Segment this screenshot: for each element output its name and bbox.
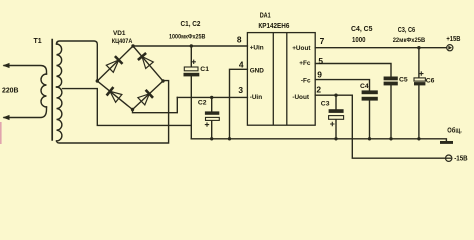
svg-text:С6: С6 [426,78,435,85]
svg-text:+Fc: +Fc [299,60,311,67]
svg-text:1000мкФх25В: 1000мкФх25В [169,33,206,40]
svg-text:Т1: Т1 [34,38,42,45]
svg-text:8: 8 [237,34,242,44]
svg-text:+Uin: +Uin [250,44,264,51]
svg-text:-Uout: -Uout [292,94,310,101]
svg-text:GND: GND [250,68,265,75]
svg-text:С1, С2: С1, С2 [181,19,201,28]
svg-text:1000: 1000 [352,37,366,44]
svg-text:+Uout: +Uout [292,45,311,52]
svg-text:9: 9 [317,70,322,80]
svg-text:VD1: VD1 [113,30,126,37]
svg-text:2: 2 [316,85,321,95]
svg-text:С3: С3 [321,101,330,108]
svg-text:С5: С5 [399,76,408,83]
svg-text:-Uin: -Uin [250,94,263,101]
svg-text:С2: С2 [198,100,207,107]
svg-text:4: 4 [239,60,244,70]
svg-text:С4: С4 [360,83,369,90]
svg-text:5: 5 [318,56,323,66]
svg-text:7: 7 [320,36,325,46]
svg-text:22мкФх25В: 22мкФх25В [393,37,426,44]
svg-text:DA1: DA1 [260,10,271,19]
svg-text:Общ.: Общ. [447,126,462,134]
svg-text:С3, С6: С3, С6 [398,25,416,34]
svg-text:220В: 220В [2,87,19,94]
svg-text:КЦ407А: КЦ407А [112,38,133,45]
svg-text:3: 3 [238,85,243,95]
svg-text:+15В: +15В [446,36,460,43]
svg-text:-Fc: -Fc [301,78,311,85]
svg-text:С4, С5: С4, С5 [351,24,373,33]
svg-text:-15В: -15В [454,155,468,162]
svg-text:КР142ЕН6: КР142ЕН6 [258,23,289,30]
svg-text:С1: С1 [200,66,209,73]
